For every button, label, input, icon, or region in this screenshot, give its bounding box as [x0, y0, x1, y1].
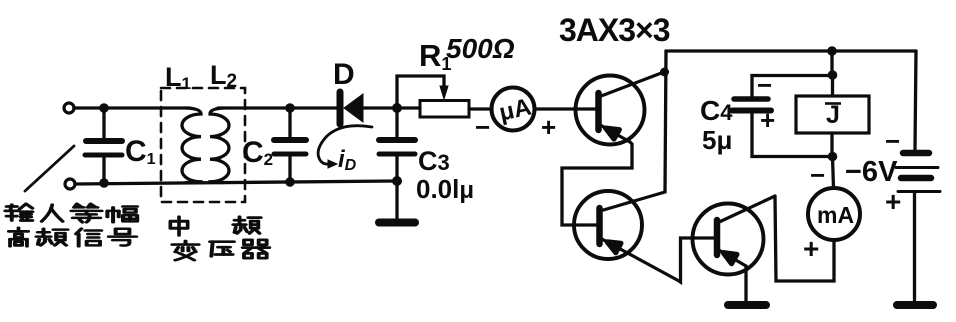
svg-text:−: −	[757, 70, 772, 100]
relay J	[796, 96, 869, 133]
node junction C1 top	[99, 103, 109, 113]
svg-text:D: D	[333, 58, 355, 91]
svg-text:iD: iD	[338, 146, 357, 174]
svg-text:C3: C3	[418, 146, 450, 176]
node input top terminal	[64, 103, 74, 113]
svg-text:mA: mA	[817, 202, 854, 228]
ground under C3	[379, 219, 415, 227]
svg-text:C2: C2	[242, 136, 273, 169]
svg-text:−6V: −6V	[845, 156, 898, 188]
wire tap down	[830, 51, 833, 75]
wire L2 top to diode	[218, 106, 337, 109]
svg-text:5μ: 5μ	[702, 125, 732, 155]
capacitor C2	[274, 140, 306, 154]
wire ground stub C3	[395, 181, 398, 219]
svg-text:0.0lμ: 0.0lμ	[416, 174, 474, 204]
svg-text:3AX3×3: 3AX3×3	[559, 12, 670, 48]
node junction Q1 collector	[660, 68, 669, 77]
svg-text:+: +	[760, 105, 775, 135]
wire collector trunk	[665, 51, 666, 192]
wire R1 to uA meter	[469, 107, 492, 110]
wire top rail	[666, 49, 916, 52]
battery B1 -6V	[896, 153, 940, 192]
wire C3 stem bottom	[395, 156, 398, 181]
wire top input	[74, 106, 190, 109]
node junction C2 top	[285, 103, 295, 113]
wire Q1 emitter to Q2 base	[562, 142, 632, 225]
wire mA top	[833, 157, 834, 188]
wire C4 bottom branch	[752, 113, 832, 157]
wire R1 wiper	[397, 76, 444, 108]
wire C2 stem bottom	[288, 156, 291, 182]
transistor Q1	[576, 72, 665, 145]
svg-text:C1: C1	[125, 135, 156, 168]
wire uA to Q1 base	[535, 107, 597, 110]
wire bottom rail	[75, 181, 397, 184]
wire J bottom	[830, 133, 833, 157]
svg-text:J: J	[826, 101, 840, 129]
node junction C4 J mA	[828, 152, 838, 162]
ground under Q3	[728, 301, 766, 309]
wire C2 stem top	[288, 108, 291, 139]
inductor L1	[182, 108, 201, 183]
capacitor C3	[379, 140, 415, 154]
label relay J serif	[825, 102, 841, 105]
wire J top	[831, 75, 834, 96]
wire C3 stem top	[395, 108, 398, 139]
node junction C2 bottom	[285, 177, 295, 187]
svg-text:−: −	[475, 112, 490, 142]
svg-text:+: +	[541, 112, 556, 142]
wire diode to R1	[363, 106, 420, 109]
svg-text:+: +	[885, 186, 901, 217]
transistor Q3	[693, 196, 776, 275]
diode D	[340, 92, 363, 124]
label chinese annotation 输入等幅高频信号	[5, 204, 137, 246]
node input bottom terminal	[65, 179, 75, 189]
wire Q3 emitter ground stub	[744, 266, 747, 301]
wire Q3 collector to mA meter	[775, 196, 834, 281]
svg-text:500Ω: 500Ω	[446, 33, 515, 64]
wire battery ground stub	[913, 193, 916, 300]
meter mA	[808, 188, 860, 240]
svg-text:C4: C4	[700, 95, 733, 126]
resistor R1 rheostat	[420, 101, 469, 118]
svg-text:+: +	[803, 233, 819, 264]
label chinese 中频变压器	[170, 217, 269, 260]
wire C1 stem bottom	[102, 156, 105, 183]
wire C1 stem top	[102, 108, 105, 140]
svg-text:L2: L2	[210, 60, 237, 92]
wire C4 top branch	[752, 76, 833, 97]
ground under battery	[897, 301, 933, 309]
transistor Q2	[574, 191, 679, 281]
node junction bottom rail C3	[392, 176, 402, 186]
node junction C1 bottom	[99, 178, 109, 188]
R1 wiper arrowhead	[440, 86, 448, 99]
node junction C4 top	[828, 70, 838, 80]
meter uA	[492, 88, 535, 131]
wire battery drop	[915, 51, 916, 149]
svg-text:−: −	[810, 160, 825, 190]
transformer dashed box	[161, 88, 245, 202]
capacitor C1	[85, 141, 122, 155]
node junction diode R1 C3	[392, 103, 402, 113]
inductor L2	[210, 108, 229, 183]
node junction top rail tap	[827, 46, 837, 56]
wire Q2 emitter to Q3 base	[679, 238, 714, 282]
capacitor C4	[732, 99, 771, 111]
wire annotation leader	[25, 146, 74, 191]
svg-text:−: −	[885, 126, 900, 156]
iD arrow	[318, 126, 372, 168]
svg-text:L1: L1	[165, 62, 191, 93]
